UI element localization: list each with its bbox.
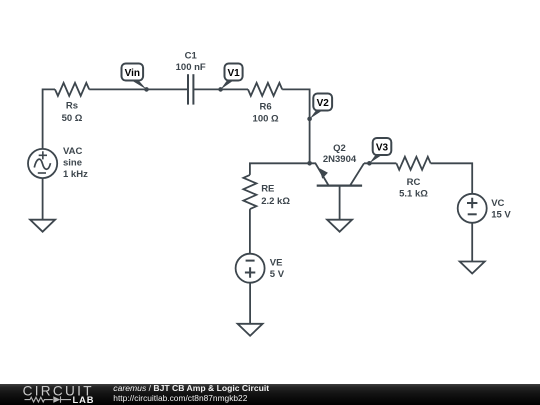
source VC — [458, 194, 487, 223]
svg-text:VAC: VAC — [63, 146, 82, 157]
svg-text:caremus / BJT CB Amp & Logic C: caremus / BJT CB Amp & Logic Circuit — [113, 383, 269, 393]
resistor R6 — [248, 83, 282, 96]
svg-text:sine: sine — [63, 157, 82, 168]
wire: VAC top to Rs — [43, 89, 55, 148]
wire: RE to VE — [249, 209, 251, 254]
svg-text:LAB: LAB — [73, 395, 95, 405]
svg-text:V1: V1 — [227, 68, 240, 79]
svg-text:http://circuitlab.com/ct8n87nm: http://circuitlab.com/ct8n87nmgkb22 — [113, 393, 247, 403]
ground (VAC) — [30, 220, 55, 232]
resistor RE — [243, 175, 256, 209]
svg-text:Q2: Q2 — [333, 143, 346, 154]
node junction at emitter — [307, 161, 312, 166]
svg-text:V2: V2 — [317, 98, 330, 109]
wire: RC to VC — [431, 163, 473, 194]
svg-text:5 V: 5 V — [270, 269, 285, 280]
node V3 flag — [373, 138, 392, 155]
resistor Rs — [55, 83, 89, 96]
source VAC — [28, 149, 57, 178]
svg-text:Vin: Vin — [125, 68, 140, 79]
ground (base of Q2) — [327, 220, 352, 232]
ground (VE) — [238, 324, 263, 336]
wire: junction to RE corner — [250, 163, 310, 175]
wire: Rs to C1 — [89, 88, 188, 90]
wire: VE to ground — [249, 283, 251, 324]
svg-text:2.2 kΩ: 2.2 kΩ — [261, 196, 290, 207]
svg-text:100 Ω: 100 Ω — [253, 113, 279, 124]
CircuitLab logo — [23, 384, 95, 405]
capacitor C1 — [187, 74, 189, 104]
wire: VC to ground — [471, 223, 473, 262]
wire: collector to RC — [364, 162, 396, 164]
node V1 flag — [225, 64, 243, 81]
transistor Q2 — [310, 163, 364, 219]
svg-text:RE: RE — [261, 183, 274, 194]
svg-text:2N3904: 2N3904 — [323, 154, 357, 165]
svg-text:5.1 kΩ: 5.1 kΩ — [399, 189, 428, 200]
wire: VAC to ground — [42, 178, 44, 220]
svg-text:R6: R6 — [260, 102, 272, 113]
svg-text:VE: VE — [270, 257, 283, 268]
node V2 flag — [313, 94, 332, 111]
source VE — [236, 254, 265, 283]
ground (VC) — [460, 262, 485, 274]
resistor RC — [396, 157, 430, 170]
node Vin flag — [122, 64, 144, 81]
svg-text:1 kHz: 1 kHz — [63, 169, 88, 180]
svg-text:Rs: Rs — [66, 101, 78, 112]
svg-text:50 Ω: 50 Ω — [62, 113, 83, 124]
svg-text:VC: VC — [491, 198, 504, 209]
wire: C1 to R6 — [193, 88, 248, 90]
svg-text:V3: V3 — [376, 143, 389, 154]
svg-text:C1: C1 — [185, 50, 198, 61]
svg-text:100 nF: 100 nF — [176, 62, 206, 73]
svg-text:RC: RC — [407, 177, 421, 188]
wire: R6 to junction (corner at x=309.6) — [282, 89, 309, 163]
svg-text:15 V: 15 V — [491, 209, 511, 220]
